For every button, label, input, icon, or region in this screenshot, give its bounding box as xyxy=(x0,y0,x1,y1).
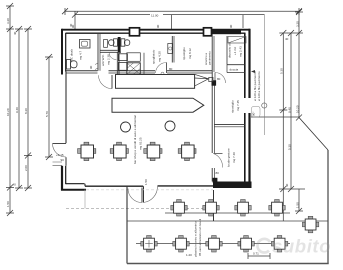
WC door arc into main room xyxy=(89,63,112,89)
svg-text:ripostiglio: ripostiglio xyxy=(182,47,186,60)
svg-text:+1 mc: +1 mc xyxy=(233,46,237,55)
svg-text:40: 40 xyxy=(13,31,17,35)
WC disab toilet xyxy=(67,60,78,70)
top strip bottom wall A (under WC rooms) xyxy=(66,71,98,73)
door into ripostiglio at strip xyxy=(215,73,226,84)
terrace table r1c4 xyxy=(269,200,285,217)
svg-text:40: 40 xyxy=(285,183,289,187)
leader text ø120 a filo pavimento xyxy=(251,15,267,135)
right dimension 1.50 below xyxy=(251,117,303,214)
terrace right edge xyxy=(327,150,329,264)
svg-text:0.71: 0.71 xyxy=(253,252,259,256)
terrace table r1c1 xyxy=(171,200,187,217)
leader line to floor drain xyxy=(172,15,243,29)
svg-text:8.20: 8.20 xyxy=(24,108,28,114)
hatched storage square xyxy=(127,63,141,75)
svg-text:10.20: 10.20 xyxy=(295,105,299,113)
terrace table r2c3 xyxy=(206,236,222,253)
pipe line below building xyxy=(213,190,215,221)
terrace row2 rail xyxy=(136,243,290,245)
svg-text:1.20: 1.20 xyxy=(186,253,192,257)
svg-text:+0.15: +0.15 xyxy=(56,153,64,157)
column black square bottom xyxy=(213,178,218,183)
svg-text:90: 90 xyxy=(229,24,233,28)
svg-text:5.30: 5.30 xyxy=(280,68,284,74)
square table with chairs 2 xyxy=(110,142,128,160)
top strip bottom wall B xyxy=(109,71,156,73)
svg-text:9.40: 9.40 xyxy=(15,107,19,113)
right dimension line 9.40 xyxy=(285,30,295,192)
partition corridor/spogliatoio xyxy=(117,52,144,75)
anti WC door arc xyxy=(109,52,116,59)
wall black segment right of column xyxy=(211,29,241,34)
terrace door from building xyxy=(128,188,142,203)
toilet left of bar xyxy=(109,39,118,46)
right dimension line 10.20 / 3.20 xyxy=(295,9,303,121)
svg-text:90: 90 xyxy=(61,158,65,162)
left wall thin lower part xyxy=(65,72,67,144)
svg-text:subito: subito xyxy=(272,236,331,257)
svg-text:90: 90 xyxy=(71,24,75,28)
svg-text:3.20: 3.20 xyxy=(295,21,299,27)
terrace table r2c5 xyxy=(271,236,287,253)
svg-text:2.00: 2.00 xyxy=(24,165,28,171)
wall x213 main room / right rooms xyxy=(212,34,214,182)
svg-text:spogliatoio: spogliatoio xyxy=(152,49,156,64)
terrace table r1c2 xyxy=(203,200,219,217)
svg-text:mq 7.40: mq 7.40 xyxy=(232,152,236,163)
round table 1 xyxy=(121,122,131,132)
left dimension line 8.20 / 2.00 xyxy=(24,26,32,191)
square table with chairs 4 xyxy=(178,142,196,160)
svg-text:WC disab: WC disab xyxy=(70,49,74,62)
bottom wall left segment xyxy=(61,184,143,190)
svg-text:mq 2.38: mq 2.38 xyxy=(107,54,111,65)
column on top wall 2 xyxy=(204,28,212,36)
square table with chairs 3 xyxy=(144,142,162,160)
svg-text:locale gestore: locale gestore xyxy=(227,148,231,167)
svg-text:pavimento: pavimento xyxy=(207,51,211,65)
main room text xyxy=(133,114,143,164)
round table 2 xyxy=(165,121,175,131)
svg-text:mq 4.7: mq 4.7 xyxy=(79,50,83,60)
svg-text:ripostiglio: ripostiglio xyxy=(231,100,235,113)
counter spogliatoio xyxy=(127,53,141,62)
terrace mid line xyxy=(127,220,328,222)
svg-text:40: 40 xyxy=(13,183,17,187)
terrace table r2c4 xyxy=(238,236,254,253)
outer wall top (double line) xyxy=(62,29,251,34)
svg-text:1.50: 1.50 xyxy=(144,179,148,185)
bottom wall thick under locale gestore xyxy=(213,182,252,189)
terrace table r1c3 xyxy=(235,200,251,217)
partition spogliatoio / ripostiglio xyxy=(172,36,174,63)
svg-text:05 vani attrezzato con tavoli: 05 vani attrezzato con tavoli xyxy=(198,218,202,256)
svg-text:80: 80 xyxy=(217,77,221,81)
svg-text:mq 8.12: mq 8.12 xyxy=(188,48,192,59)
bar counter upper xyxy=(116,74,214,88)
svg-text:1.50: 1.50 xyxy=(6,201,10,207)
terrace row1 rail xyxy=(165,212,290,214)
svg-text:mq 2.43: mq 2.43 xyxy=(239,46,243,57)
svg-text:deposito di: deposito di xyxy=(228,43,232,58)
svg-text:11.00: 11.00 xyxy=(151,13,159,17)
window marks 90 on top wall xyxy=(71,24,233,28)
column on top wall 1 xyxy=(130,28,140,36)
terrace table r2c1 xyxy=(141,236,157,253)
watermark subito xyxy=(257,236,331,257)
svg-text:pilastra in vetro e alluminio: pilastra in vetro e alluminio xyxy=(194,221,198,257)
outer wall left (double) xyxy=(62,29,66,75)
spogliatoio door xyxy=(156,62,173,75)
right dimension line 5.30 xyxy=(279,30,305,221)
bottom dimension 0.71 xyxy=(186,252,270,260)
svg-text:90: 90 xyxy=(89,65,93,69)
partition black bar between toilets xyxy=(118,37,121,77)
svg-text:anti W.C.: anti W.C. xyxy=(101,54,105,66)
svg-text:80: 80 xyxy=(216,171,220,175)
gray vertical projection xyxy=(84,190,86,209)
svg-text:5.70: 5.70 xyxy=(45,111,49,117)
svg-text:bar shop e vendit di auto e al: bar shop e vendit di auto e alimentari xyxy=(133,114,137,164)
terrace text column xyxy=(194,218,203,257)
svg-text:9.40: 9.40 xyxy=(287,107,291,113)
main entrance door bottom xyxy=(144,179,158,203)
partition WC disab / anti WC xyxy=(98,34,100,71)
svg-text:5.30: 5.30 xyxy=(287,144,291,150)
square table with chairs 1 xyxy=(78,142,96,160)
room texts top strip xyxy=(70,43,243,66)
left dimension line 5.70 xyxy=(45,54,53,160)
small wall under toilets xyxy=(100,50,121,52)
doccia tray xyxy=(0,0,1,1)
svg-text:90: 90 xyxy=(156,24,160,28)
terrace table r2c2 xyxy=(173,236,189,253)
door locale gestore xyxy=(214,154,223,176)
top strip bottom wall C xyxy=(167,71,212,73)
terrace left edge xyxy=(126,186,128,264)
svg-text:1.50: 1.50 xyxy=(295,202,299,208)
room texts right xyxy=(227,100,241,167)
terrace bottom edge xyxy=(127,263,329,265)
bottom wall mid segment xyxy=(86,186,213,190)
svg-text:10.20: 10.20 xyxy=(6,108,10,116)
deposito room walls xyxy=(227,36,246,73)
cabinets spogliatoio xyxy=(118,54,127,71)
svg-text:90°: 90° xyxy=(252,111,256,116)
left dimension line 9.40 xyxy=(13,26,23,191)
svg-text:3.20: 3.20 xyxy=(6,18,10,24)
svg-text:mq 4.20: mq 4.20 xyxy=(158,51,162,62)
terrace table right single xyxy=(302,216,318,233)
divider ripostiglio / locale gestore xyxy=(214,125,244,127)
left dimension line 10.20 xyxy=(6,3,16,216)
terrace diagonal xyxy=(299,118,328,151)
gray dashed projection line xyxy=(66,208,213,210)
column black square mid xyxy=(212,80,217,85)
WC disab fixtures: sink xyxy=(80,40,91,49)
svg-text:40: 40 xyxy=(285,37,289,41)
toilet right of bar xyxy=(104,39,130,48)
entrance door left wall xyxy=(53,144,67,163)
top dimension line 11.00 xyxy=(62,8,302,29)
svg-text:mq 7.45: mq 7.45 xyxy=(236,100,240,111)
bar counter lower with point xyxy=(112,98,204,112)
outer wall right (double) with door gap xyxy=(245,29,250,188)
svg-text:mq 63.25: mq 63.25 xyxy=(139,137,143,150)
svg-text:ø 120 a filo pavimento: ø 120 a filo pavimento xyxy=(257,71,261,101)
svg-text:doccia: doccia xyxy=(230,68,239,72)
bench spogliatoio xyxy=(168,44,173,54)
left wall thick lower corner xyxy=(53,157,67,190)
